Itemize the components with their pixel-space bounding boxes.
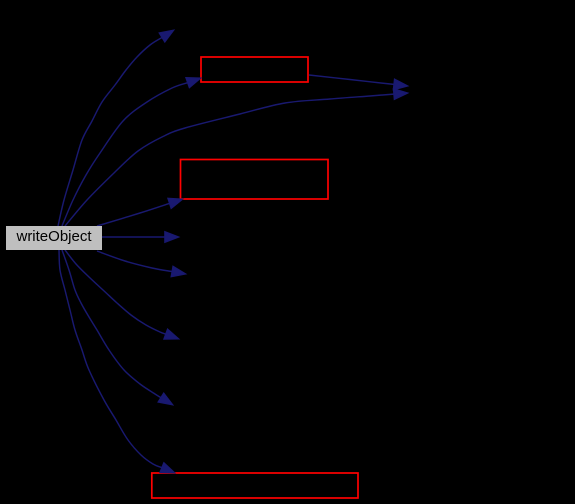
- edge writeObject->node2 (top): [58, 30, 174, 226]
- edge writeObject->node3 (red box 1): [62, 78, 201, 227]
- edge writeObject->node8: [65, 250, 179, 339]
- node10 red box bottom: [152, 473, 358, 498]
- node3 red box top: [201, 57, 308, 82]
- edge writeObject->node6 (horizontal): [102, 232, 179, 243]
- node writeObject (current function, grey): [6, 226, 102, 250]
- edge node3->node4 (from red box 1): [309, 75, 408, 90]
- edge writeObject->node4 (right): [65, 89, 408, 226]
- edge writeObject->node9: [62, 250, 173, 405]
- edge writeObject->node7: [97, 251, 186, 277]
- edge writeObject->node10 (red box 3): [59, 250, 175, 473]
- edge writeObject->node5 (red box 2): [97, 198, 183, 226]
- node5 red box middle: [181, 160, 329, 200]
